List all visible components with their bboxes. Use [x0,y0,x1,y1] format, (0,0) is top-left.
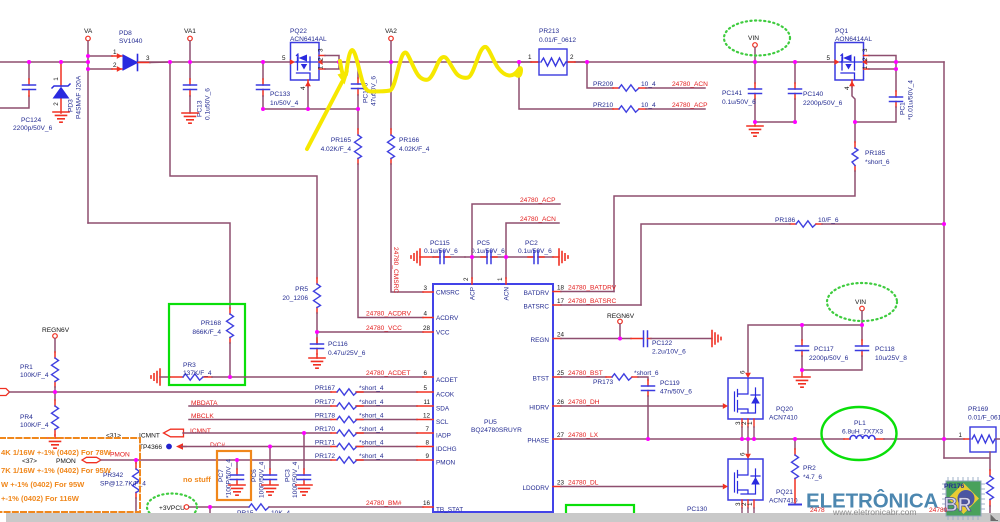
svg-text:1n/50V_4: 1n/50V_4 [270,100,299,107]
ground PC6 [262,485,278,495]
pin 23 LDODRV [522,480,725,493]
transistor PQ22 [282,28,339,109]
capacitor PC119 [638,377,692,439]
svg-text:100K/F_4: 100K/F_4 [20,422,49,429]
terminal VA [84,28,93,56]
svg-text:ACDRV: ACDRV [436,315,459,322]
svg-text:VA: VA [84,28,93,35]
svg-text:12: 12 [423,413,431,420]
capacitor PC2 [506,240,553,264]
svg-text:ACDET: ACDET [436,377,458,384]
svg-text:PC119: PC119 [660,380,680,387]
resistor PR342 [100,460,146,513]
capacitor PC141 [722,62,762,122]
pin 24 REGN [531,332,631,345]
svg-text:no stuff: no stuff [183,475,211,484]
svg-text:PC116: PC116 [328,341,348,348]
svg-text:PMON: PMON [110,452,130,459]
svg-text:PC115: PC115 [430,240,450,247]
pin 16 TB_STAT [423,500,463,514]
svg-text:5: 5 [827,55,831,62]
svg-text:REGN: REGN [531,337,550,344]
net D/C# label [210,442,225,449]
svg-text:11: 11 [423,399,430,406]
svg-text:VCC: VCC [436,330,450,337]
watermark BR chip logo [929,477,985,520]
svg-text:24780_LX: 24780_LX [568,432,599,439]
svg-text:6.8uH_7X7X3: 6.8uH_7X7X3 [842,429,883,436]
svg-text:PQ20: PQ20 [776,406,793,413]
terminal VIN [748,35,759,62]
svg-text:4.02K/F_4: 4.02K/F_4 [321,146,352,153]
svg-text:10u/25V_8: 10u/25V_8 [875,355,907,362]
resistor PR167 [315,385,384,395]
svg-text:9: 9 [425,453,429,460]
resistor PR165 [321,109,362,164]
svg-text:W +-1% (0402) For 95W: W +-1% (0402) For 95W [1,480,85,489]
svg-text:PR213: PR213 [539,28,559,35]
svg-text:PR1: PR1 [20,364,33,371]
ground PC122 sideways [712,331,721,347]
svg-text:PC117: PC117 [814,346,834,353]
capacitor PC124 [13,79,53,132]
svg-text:24780_DH: 24780_DH [568,399,600,406]
svg-text:28: 28 [423,325,431,332]
terminal VA1 [184,28,196,62]
svg-text:2: 2 [570,54,574,61]
ground PR3 sideways [151,369,170,385]
capacitor PC140 [789,62,843,122]
svg-text:2: 2 [463,277,470,281]
svg-text:PC13: PC13 [197,100,204,117]
resistor PR209 [587,62,705,91]
capacitor PC118 [802,325,907,370]
svg-text:24780_ACN: 24780_ACN [520,216,556,223]
resistor PR168 [192,308,233,377]
svg-text:24780_ACDRV: 24780_ACDRV [366,311,412,318]
svg-text:ACN: ACN [504,287,511,301]
wire PC141 PC140 gnd rail [755,121,795,123]
wire PMON row [101,459,417,461]
net 24780_ACDRV label [366,311,412,318]
net MBCLK label [191,413,214,420]
resistor PR178 [315,413,384,423]
annotation orange dashed box [0,438,140,512]
svg-text:24780_BATDRV: 24780_BATDRV [568,285,617,292]
svg-text:VA1: VA1 [184,28,196,35]
pin 6 ACDET [423,370,458,384]
resistor PR185 [852,122,890,171]
svg-text:25: 25 [557,370,565,377]
scrollbar corner arrow [991,516,998,521]
svg-text:PHASE: PHASE [527,438,549,445]
svg-text:1: 1 [497,277,504,281]
resistor PR5 [282,278,320,313]
svg-text:BATSRC: BATSRC [524,304,550,311]
svg-text:10_4: 10_4 [641,81,656,88]
net 24780_BST label [568,370,603,377]
svg-text:8: 8 [425,440,429,447]
svg-text:D/C#: D/C# [210,442,225,449]
svg-text:VIN: VIN [855,299,866,306]
wire PC124 branch [0,62,29,108]
svg-text:PC140: PC140 [803,91,823,98]
svg-text:2478: 2478 [810,507,825,514]
svg-text:PC5: PC5 [477,240,490,247]
svg-text:3: 3 [146,55,150,62]
resistor PR210 [519,62,705,112]
svg-text:PC7: PC7 [218,469,225,482]
svg-text:23: 23 [557,480,565,487]
annotation green box PR168 PR3 [169,304,245,385]
pin 7 IADP [417,426,451,440]
junction dots output stage [740,323,946,441]
svg-text:1: 1 [113,49,117,56]
svg-text:PC2: PC2 [525,240,538,247]
svg-text:24780_ACP: 24780_ACP [520,197,556,204]
net 24780_ACDET label [366,370,410,377]
svg-text:4: 4 [844,86,851,90]
capacitor PC117 [796,325,849,370]
wire PR166 to CMSRC [391,164,423,292]
svg-text:0.1u/50V_6: 0.1u/50V_6 [722,99,756,106]
pin 17 BATSRC [524,298,641,311]
svg-text:10_4: 10_4 [641,102,656,109]
svg-text:PC141: PC141 [722,90,742,97]
terminal +3VPCU [159,505,249,512]
gray scrollbar bar [6,513,1000,522]
svg-text:ACP: ACP [470,287,477,300]
pin 2 ACP [463,277,477,300]
svg-text:PR171: PR171 [315,440,335,447]
ground PD3 [53,112,69,122]
svg-text:47n/50V_6: 47n/50V_6 [660,389,692,396]
svg-text:PR4: PR4 [20,414,33,421]
testpoint TP4366 [139,443,186,451]
capacitor PC136 [352,62,378,109]
svg-text:*short_6: *short_6 [634,370,659,377]
capacitor PC133 [257,62,299,109]
terminal VIN lower [855,299,866,325]
capacitor PC116 [311,338,366,358]
svg-text:*0.01u/50V_4: *0.01u/50V_4 [908,80,915,120]
svg-text:0.1u50V_6: 0.1u50V_6 [205,88,212,120]
wire +3VPCU stub down [209,507,211,513]
capacitor PC3 [285,433,311,498]
svg-text:P4SMAF J20A: P4SMAF J20A [76,75,83,119]
wire BATSRC to PR186 [641,224,790,305]
annotation green dotted ellipse VIN [724,21,790,56]
svg-text:26: 26 [557,399,565,406]
svg-text:PR170: PR170 [315,426,335,433]
pin 3 CMSRC [423,285,460,297]
svg-text:24780_BATSRC: 24780_BATSRC [568,298,616,305]
ground PC141 [747,122,763,136]
net 24780_ACN label [520,216,556,223]
svg-text:*100P/50V_4: *100P/50V_4 [226,459,233,498]
svg-text:24780_VCC: 24780_VCC [366,325,402,332]
svg-text:5: 5 [423,385,427,392]
resistor PR176 [944,470,994,513]
ground PC7 [229,485,245,495]
pin 4 ACDRV [423,311,459,323]
svg-text:*4.7_6: *4.7_6 [803,474,822,481]
svg-text:CMSRC: CMSRC [436,290,460,297]
net 24780_BATDRV label [568,285,617,292]
wire IADP row [183,432,417,434]
wire IDCHG row [182,446,417,448]
resistor PR171 [315,440,384,450]
svg-text:0.47u/25V_6: 0.47u/25V_6 [328,350,366,357]
svg-text:ICMNT: ICMNT [139,433,160,440]
junction dots IC section [470,255,650,441]
svg-text:*short_4: *short_4 [359,399,384,406]
svg-text:PR5: PR5 [295,286,308,293]
svg-text:100P/50V_4: 100P/50V_4 [292,461,299,498]
net PMON label [110,452,130,459]
svg-text:TB_STAT: TB_STAT [436,507,463,514]
svg-text:IDCHG: IDCHG [436,446,457,453]
wire PR169 bottom to PR176 [944,452,990,470]
svg-text:7K 1/16W +-1% (0402) For 95W: 7K 1/16W +-1% (0402) For 95W [1,466,112,475]
svg-text:PC133: PC133 [270,91,290,98]
annotation orange box no stuff [183,451,251,500]
svg-text:PR210: PR210 [593,102,613,109]
svg-text:PR2: PR2 [803,465,816,472]
wire PQ22 gate rail [263,108,358,110]
svg-text:IADP: IADP [436,433,451,440]
svg-text:ICMNT: ICMNT [190,428,211,435]
svg-text:*short_6: *short_6 [865,159,890,166]
ground PR4 [47,438,63,448]
pin 1 ACN [497,277,511,301]
svg-text:PR177: PR177 [315,399,335,406]
svg-text:*short_4: *short_4 [359,385,384,392]
svg-text:1: 1 [958,432,962,439]
wire PR165 to ACDRV [358,164,423,318]
svg-text:PC3: PC3 [285,469,292,482]
svg-text:SCL: SCL [436,419,449,426]
svg-text:137K/F_4: 137K/F_4 [183,370,212,377]
wire VIN rail to PQ20 [748,325,862,372]
pin 12 SCL [417,413,449,427]
svg-text:*short_4: *short_4 [359,413,384,420]
svg-text:24780_BST: 24780_BST [568,370,603,377]
resistor PR4 [20,392,59,438]
svg-text:PR209: PR209 [593,81,613,88]
svg-text:3: 3 [862,48,869,52]
wire PR5 to VCC [317,313,423,344]
svg-text:24780_DL: 24780_DL [568,480,599,487]
svg-text:1: 1 [53,77,60,81]
svg-text:ACN7410: ACN7410 [769,415,798,422]
svg-text:PR168: PR168 [201,320,221,327]
svg-text:PR165: PR165 [331,137,351,144]
junction dots left section [53,330,319,509]
svg-text:PR176: PR176 [944,483,964,490]
svg-text:24780_CMSRC: 24780_CMSRC [392,247,399,293]
annotation orange text line4 [1,494,80,503]
net 24780_DL label [568,480,599,487]
svg-text:REGN6V: REGN6V [42,327,70,334]
resistor PR15 [237,504,423,517]
wire main input rail [0,61,944,63]
svg-text:PC130: PC130 [687,506,707,513]
resistor PR166 [388,62,430,164]
svg-text:0.1u/50V_6: 0.1u/50V_6 [424,248,458,255]
svg-text:4K 1/16W +-1% (0402) For 78W: 4K 1/16W +-1% (0402) For 78W [1,448,112,457]
wire main output vertical [943,62,945,458]
svg-text:4: 4 [300,86,307,90]
resistor PR169 [958,406,1000,452]
svg-text:PQ1: PQ1 [835,28,849,35]
svg-text:0.01/F_061: 0.01/F_061 [968,415,1000,422]
ground cap row left [411,249,433,265]
diode PD8 [90,30,170,72]
op-amp U1 IC PU5 BQ24780SRUYR body [433,284,553,512]
pin 9 PMON [417,453,456,467]
net MBDATA label [191,400,218,407]
net 24780_LX label [568,432,599,439]
svg-text:PC124: PC124 [21,117,41,124]
net 24780_BM# label [366,500,402,507]
pin 25 BTST [533,370,606,383]
svg-text:+-1% (0402) For 116W: +-1% (0402) For 116W [1,494,80,503]
ground PC13 [182,113,198,123]
watermark www.eletronicabr.com [832,507,917,517]
watermark ELETRONICA text [806,489,939,513]
svg-text:866K/F_4: 866K/F_4 [192,329,221,336]
annotation green box bottom [566,505,634,519]
svg-text:PR185: PR185 [865,150,885,157]
svg-text:PL1: PL1 [854,420,866,427]
annotation orange text line3 [1,480,85,489]
svg-text:BR: BR [944,495,972,516]
capacitor PC1 [855,69,915,122]
wire SCL row [189,419,417,421]
ground PC116 [309,358,325,368]
svg-text:2200p/50V_6: 2200p/50V_6 [809,355,849,362]
svg-text:BATDRV: BATDRV [524,290,550,297]
svg-text:3: 3 [318,48,325,52]
transistor PQ20 [723,370,798,439]
svg-text:100K/F_4: 100K/F_4 [20,372,49,379]
svg-text:0.01/F_0612: 0.01/F_0612 [539,37,576,44]
annotation green ellipse PL1 [822,407,897,460]
svg-text:PC1: PC1 [900,102,907,115]
wire PR185 to BATDRV [614,171,855,292]
svg-text:PU5: PU5 [484,419,497,426]
svg-text:2200p/50V_6: 2200p/50V_6 [803,100,843,107]
svg-text:24780_ACDET: 24780_ACDET [366,370,410,377]
capacitor PC122 [631,331,712,356]
svg-text:5: 5 [282,55,286,62]
resistor PR177 [315,399,384,409]
svg-text:PR3: PR3 [183,362,196,369]
svg-text:27: 27 [557,432,565,439]
svg-text:PD8: PD8 [119,30,132,37]
net 24780_CMSRC vertical label [392,247,399,293]
svg-text:24780_BM#: 24780_BM# [366,500,402,507]
net 24780_ACN wire [506,223,559,278]
svg-text:PR169: PR169 [968,406,988,413]
terminal REGN6V left [42,327,70,352]
svg-text:VA2: VA2 [385,28,397,35]
svg-text:PMON: PMON [436,460,456,467]
svg-text:PQ21: PQ21 [776,489,793,496]
svg-text:ACOK: ACOK [436,392,455,399]
svg-text:SV1040: SV1040 [119,38,143,45]
pin 27 PHASE [527,432,844,445]
resistor PR2 [792,439,823,504]
svg-text:10/F_6: 10/F_6 [818,217,839,224]
capacitor PC115 [424,240,465,264]
capacitor PC7 [218,459,244,498]
svg-text:<37>: <37> [22,458,37,465]
annotation yellow wave [340,47,521,92]
annotation orange text line2 [1,466,112,475]
svg-text:1: 1 [862,66,869,70]
net 24780_ACP label [672,102,708,109]
capacitor PC6 [251,447,277,499]
svg-text:1: 1 [747,502,754,506]
resistor PR213 [519,28,587,75]
inductor PL1 [842,420,964,439]
pin 26 HIDRV [529,399,725,412]
wire VA to PR168 [88,223,230,308]
svg-text:TP4366: TP4366 [139,444,162,451]
svg-text:VIN: VIN [748,35,759,42]
svg-text:*short_4: *short_4 [359,453,384,460]
annotation yellow arrow [307,71,349,150]
svg-text:16: 16 [423,500,431,507]
net 24780_VCC label [366,325,402,332]
resistor PR186 [775,217,944,227]
ground PC117 [794,370,810,387]
svg-text:24780_ACN: 24780_ACN [672,81,708,88]
pin 28 VCC [423,325,450,337]
svg-text:7: 7 [425,426,429,433]
svg-text:*short_4: *short_4 [359,426,384,433]
svg-text:PC118: PC118 [875,346,895,353]
svg-text:2.2u/10V_6: 2.2u/10V_6 [652,349,686,356]
svg-text:24780: 24780 [929,507,948,514]
svg-text:ACN7410: ACN7410 [769,498,798,505]
svg-text:1: 1 [747,421,754,425]
capacitor PC13 [184,62,212,120]
net 24780_BATSRC label [568,298,616,305]
svg-text:PR178: PR178 [315,413,335,420]
resistor PR3 [170,362,230,380]
svg-text:PMON: PMON [56,458,76,465]
resistor PR170 [315,426,384,436]
resistor PR173 [593,370,659,386]
svg-text:4: 4 [423,311,427,318]
svg-text:100P/50V_4: 100P/50V_4 [259,461,266,498]
svg-text:24780_ACP: 24780_ACP [672,102,708,109]
pin 11 SDA [417,399,450,413]
watermark 24780 red fragment [810,507,825,514]
junction dots top rail [27,54,946,226]
svg-text:1: 1 [528,54,532,61]
svg-text:PR173: PR173 [593,379,613,386]
wire SDA row [189,405,417,407]
svg-text:+3VPCU: +3VPCU [159,505,185,512]
svg-text:0.1u/50V_6: 0.1u/50V_6 [518,248,552,255]
svg-text:3: 3 [423,285,427,292]
connector ICMNT [106,429,184,439]
pin 18 BATDRV [524,285,614,298]
